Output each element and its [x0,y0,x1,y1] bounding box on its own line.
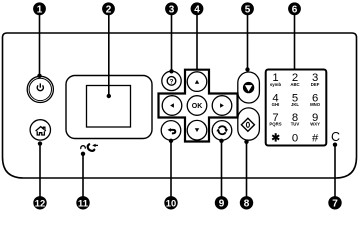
svg-text:10: 10 [166,197,176,208]
svg-text:GHI: GHI [272,102,280,107]
svg-text:4: 4 [194,4,200,15]
svg-text:#: # [312,132,319,144]
svg-text:WXY: WXY [310,122,320,127]
svg-text:5: 5 [245,4,251,15]
svg-text:1: 1 [37,4,43,15]
svg-text:8: 8 [244,199,250,210]
svg-text:2: 2 [106,4,112,15]
svg-text:TUV: TUV [291,122,300,127]
svg-text:OK: OK [192,103,203,110]
svg-text:JKL: JKL [291,102,299,107]
svg-text:symb: symb [270,82,282,87]
svg-text:0: 0 [292,132,298,144]
svg-text:9: 9 [219,199,225,210]
svg-text:7: 7 [332,199,338,210]
svg-text:ABC: ABC [290,82,299,87]
svg-text:6: 6 [292,4,298,15]
svg-text:PQRS: PQRS [269,122,281,127]
svg-text:3: 3 [169,4,175,15]
svg-text:MNO: MNO [310,102,321,107]
svg-text:?: ? [170,78,174,85]
svg-text:DEF: DEF [311,82,320,87]
svg-text:C: C [331,130,340,144]
svg-text:11: 11 [78,197,88,208]
svg-text:12: 12 [35,197,45,208]
